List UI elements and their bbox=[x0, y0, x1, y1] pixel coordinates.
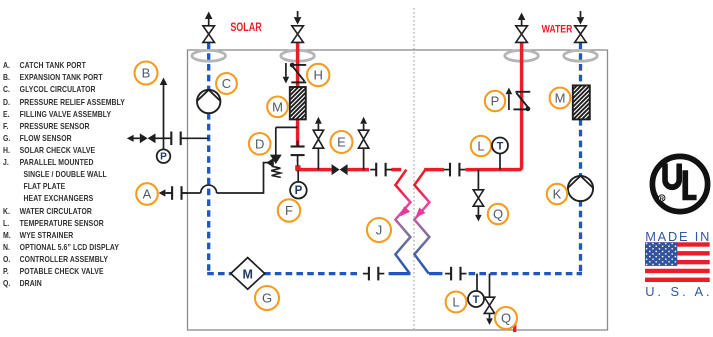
wire red solar supply riser bbox=[296, 42, 300, 87]
union catch line bbox=[166, 192, 172, 194]
label Q lower bbox=[495, 307, 517, 329]
label P water bbox=[485, 91, 505, 111]
wire blue hx to union solid bbox=[429, 272, 442, 275]
relief valve spring bbox=[271, 166, 281, 177]
svg-text:SOLAR: SOLAR bbox=[230, 22, 262, 34]
union blue left bbox=[363, 273, 369, 275]
relief valve D triangles bbox=[271, 155, 281, 163]
wire blue water mid bbox=[579, 119, 582, 177]
strainer M water bbox=[573, 85, 590, 119]
drain Q upper valve bbox=[473, 190, 483, 198]
filling valve 1 arrow bbox=[315, 117, 322, 124]
svg-text:L: L bbox=[477, 139, 484, 154]
UL logo letter U bbox=[662, 164, 682, 191]
valve red main bbox=[332, 164, 340, 175]
heat exchanger J left zigzag bbox=[395, 170, 410, 274]
check valve H hinge dot bbox=[290, 63, 295, 68]
arrow flow up P bbox=[506, 88, 513, 95]
arrow catch tank port bbox=[159, 189, 166, 196]
UL registered mark bbox=[659, 195, 665, 201]
svg-text:WATER: WATER bbox=[542, 24, 574, 36]
svg-text:D: D bbox=[255, 136, 264, 151]
svg-text:Q: Q bbox=[501, 311, 511, 326]
U.S.A. text bbox=[645, 284, 712, 299]
label F bbox=[278, 199, 300, 221]
check valve P tick top bbox=[515, 91, 530, 93]
wire relief discharge drop bbox=[263, 163, 265, 194]
arrow expansion port bbox=[127, 135, 134, 142]
check valve P flap bbox=[516, 93, 528, 108]
circulator K pump bbox=[568, 176, 593, 201]
arrow flow down H bbox=[283, 77, 290, 84]
solar supply shutoff valve bbox=[292, 26, 304, 34]
label J bbox=[367, 218, 391, 242]
valve expansion line bbox=[140, 133, 148, 143]
label L upper bbox=[471, 136, 491, 156]
circulator C pump bbox=[197, 90, 220, 113]
svg-text:F: F bbox=[285, 203, 293, 218]
arrow B expansion tank up bbox=[160, 78, 168, 86]
wire blue water riser bbox=[579, 42, 582, 86]
filling valve 2 wire bbox=[363, 148, 365, 169]
flow arrow hx left bbox=[400, 206, 410, 216]
sensor temperature T lower bbox=[468, 291, 484, 307]
label M solar bbox=[267, 97, 288, 118]
port ellipse bbox=[281, 50, 315, 61]
svg-text:K: K bbox=[553, 187, 562, 202]
drain Q upper arrow bbox=[475, 215, 482, 222]
wire catch line to union bbox=[165, 192, 171, 194]
union expansion line bbox=[165, 137, 171, 139]
svg-text:Q: Q bbox=[493, 207, 503, 222]
label C bbox=[216, 73, 237, 94]
svg-text:H: H bbox=[314, 68, 323, 83]
wire P gauge stub bbox=[163, 138, 165, 149]
label D bbox=[249, 133, 271, 155]
wire red union to hx bbox=[391, 168, 401, 172]
MADE IN text bbox=[645, 229, 711, 244]
union blue right bbox=[445, 273, 451, 275]
wire red hx to union right bbox=[424, 168, 444, 172]
sensor stub T lower bbox=[476, 274, 478, 291]
solar return arrow up bbox=[205, 12, 213, 20]
red mark bottom edge bbox=[513, 321, 516, 332]
svg-text:G: G bbox=[262, 291, 272, 306]
check valve H tick top bbox=[291, 64, 306, 66]
wire hop to relief drop bbox=[217, 192, 264, 194]
label K bbox=[547, 184, 567, 204]
drain Q lower valve bbox=[484, 297, 494, 305]
sensor stub F bbox=[297, 170, 299, 182]
wire red valve to union bbox=[348, 168, 369, 172]
svg-text:M: M bbox=[555, 91, 566, 106]
drain Q lower arrow bbox=[486, 318, 493, 325]
union solar drop bbox=[297, 141, 299, 147]
wire red strainer to union bbox=[296, 119, 300, 146]
UL logo letter L bbox=[682, 170, 696, 200]
union red right bbox=[444, 169, 450, 171]
wire blue diamond to union bbox=[264, 272, 361, 275]
drain Q lower wire bbox=[489, 274, 491, 298]
label H bbox=[307, 64, 329, 86]
wire expansion tank line bbox=[133, 137, 140, 139]
solar supply arrow down bbox=[294, 17, 302, 25]
check valve H tick bottom bbox=[291, 81, 306, 83]
port ellipse bbox=[564, 50, 598, 61]
solar return shutoff valve bbox=[203, 26, 215, 34]
svg-text:J: J bbox=[376, 223, 383, 238]
union red left bbox=[370, 169, 376, 171]
enclosure box bbox=[188, 50, 608, 330]
svg-text:E: E bbox=[337, 135, 346, 150]
check valve P hinge dot bbox=[526, 106, 531, 111]
cold water arrow down bbox=[577, 17, 585, 25]
heat exchanger J right zigzag bbox=[414, 170, 429, 274]
wire red union to corner and riser bbox=[466, 42, 522, 169]
center dividing line bbox=[413, 8, 415, 329]
flow sensor G diamond bbox=[231, 258, 265, 290]
svg-text:C: C bbox=[222, 76, 231, 91]
wire blue water down leg bbox=[579, 200, 582, 275]
svg-text:B: B bbox=[142, 66, 151, 81]
svg-text:T: T bbox=[473, 294, 480, 306]
cold water shutoff valve bbox=[575, 26, 587, 34]
strainer M solar bbox=[290, 87, 306, 119]
svg-text:P: P bbox=[160, 152, 167, 163]
port ellipse bbox=[192, 50, 226, 61]
hot water shutoff valve bbox=[516, 26, 528, 34]
drain Q upper wire bbox=[477, 170, 479, 190]
sensor pressure F bbox=[290, 182, 307, 199]
sensor pressure gauge left bbox=[157, 149, 171, 163]
label E bbox=[331, 131, 353, 153]
node red junction bbox=[295, 165, 300, 170]
sensor temperature T upper bbox=[492, 138, 508, 154]
svg-text:P: P bbox=[491, 94, 500, 109]
wire blue solar down leg bbox=[207, 113, 210, 275]
svg-text:A: A bbox=[143, 187, 152, 202]
filling valve 2 arrow bbox=[360, 117, 367, 124]
wire blue bottom left run bbox=[207, 272, 231, 275]
svg-text:M: M bbox=[272, 99, 283, 114]
wire red main left bbox=[296, 168, 332, 172]
port ellipse bbox=[505, 50, 539, 61]
filling valve 1 bbox=[313, 130, 323, 139]
filling valve 1 wire bbox=[317, 148, 319, 169]
label M water bbox=[550, 88, 571, 109]
svg-text:L: L bbox=[452, 295, 459, 310]
hot water arrow up bbox=[518, 13, 526, 21]
svg-text:M: M bbox=[242, 267, 252, 281]
label L lower bbox=[446, 292, 467, 313]
svg-text:P: P bbox=[295, 185, 303, 197]
flow arrow hx right bbox=[415, 208, 425, 218]
wire catch line to hop bbox=[183, 192, 201, 194]
wire blue bottom right run bbox=[469, 272, 582, 275]
label B bbox=[135, 62, 158, 85]
filling valve 2 bbox=[358, 130, 368, 139]
label G bbox=[255, 286, 279, 310]
sensor stub T upper bbox=[499, 154, 501, 170]
wire blue union to hx solid bbox=[389, 272, 411, 275]
svg-text:T: T bbox=[497, 140, 504, 152]
wire relief branch bbox=[276, 126, 298, 128]
MADE IN USA flag bbox=[645, 242, 710, 282]
check valve P tick bottom bbox=[513, 108, 528, 110]
wire below union black bbox=[297, 159, 299, 166]
check valve H flap bbox=[292, 66, 304, 81]
label A bbox=[136, 183, 158, 205]
UL logo ring bbox=[652, 156, 707, 211]
wire blue solar return riser bbox=[207, 42, 210, 90]
label Q upper bbox=[488, 204, 508, 224]
wire hop over blue bbox=[201, 185, 217, 193]
